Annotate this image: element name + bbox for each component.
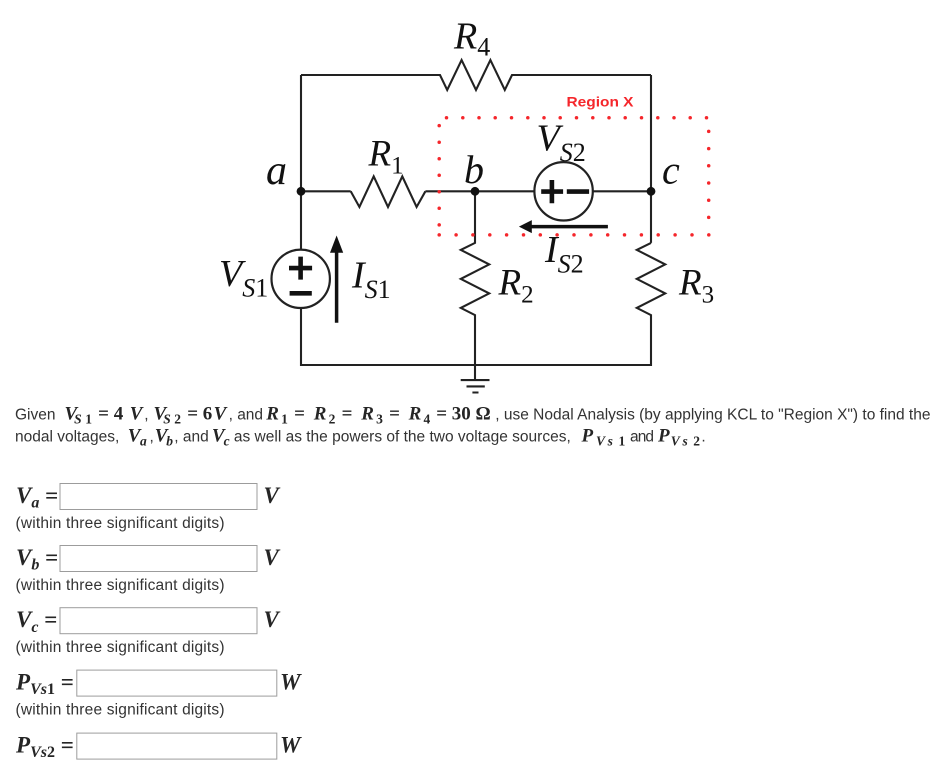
svg-text:c: c xyxy=(662,148,680,193)
node c (junction dot) xyxy=(647,187,656,196)
VS2 plus sign xyxy=(541,180,563,203)
svg-text:(within three significant digi: (within three significant digits) xyxy=(16,515,225,532)
svg-text:R1: R1 xyxy=(368,133,404,179)
svg-text:IS2: IS2 xyxy=(544,229,584,279)
wire: middle wire from R1 through node b to Vs2 xyxy=(425,190,534,192)
node b (junction dot) xyxy=(471,187,480,196)
answer input box Vb xyxy=(60,546,257,572)
svg-text:R4: R4 xyxy=(453,16,490,62)
resistor R2 (vertical zigzag from node b to bottom wire) xyxy=(461,191,489,366)
answer input box PVs2 xyxy=(77,733,277,759)
svg-text:Vb =: Vb = xyxy=(16,545,58,574)
svg-text:Va =: Va = xyxy=(16,483,58,512)
ground symbol xyxy=(461,365,490,393)
VS1 minus sign xyxy=(290,291,312,296)
svg-text:V: V xyxy=(264,607,281,632)
wire: middle wire from node a to R1 xyxy=(301,190,351,192)
resistor R1 (horizontal zigzag) xyxy=(351,176,426,207)
answer input box PVs1 xyxy=(77,670,277,696)
svg-text:PVs1 =: PVs1 = xyxy=(15,670,74,699)
current arrow IS2 (pointing left) xyxy=(531,225,608,229)
svg-text:W: W xyxy=(280,670,302,695)
svg-text:b: b xyxy=(464,147,484,192)
VS1 plus sign xyxy=(289,257,312,280)
wire: left rail lower segment (Vs1 down to bottom wire) xyxy=(300,308,302,366)
wire: bottom wire xyxy=(300,364,652,366)
svg-text:VS2: VS2 xyxy=(537,118,586,168)
svg-text:W: W xyxy=(280,733,302,758)
svg-text:Region X: Region X xyxy=(567,94,635,110)
svg-text:a: a xyxy=(266,148,287,194)
svg-text:V: V xyxy=(264,545,281,570)
wire: left rail upper segment (top wire down to Vs1) xyxy=(300,75,302,250)
svg-text:VS1: VS1 xyxy=(219,253,268,303)
svg-text:IS1: IS1 xyxy=(351,255,391,305)
voltage source VS1 (circle) xyxy=(272,250,330,308)
wire: middle wire from Vs2 to node c xyxy=(593,190,651,192)
voltage source VS2 (circle) xyxy=(534,162,592,220)
answer input box Va xyxy=(60,484,257,510)
Region X dotted boundary xyxy=(437,116,710,237)
wire: right rail (top wire down to node c and resistor R3) xyxy=(650,75,652,243)
node a (junction dot) xyxy=(297,187,306,196)
svg-text:(within three significant digi: (within three significant digits) xyxy=(16,701,225,718)
svg-text:Given VS1 = 4 V, VS2 = 6 V, an: Given VS1 = 4 V, VS2 = 6 V, and R1 = R2 … xyxy=(15,404,930,427)
svg-text:R2: R2 xyxy=(498,263,534,309)
answer input box Vc xyxy=(60,608,257,634)
resistor R3 (vertical zigzag) xyxy=(637,243,665,366)
svg-text:(within three significant digi: (within three significant digits) xyxy=(16,577,225,594)
wire: top wire with resistor R4 between top-left and top-right corners xyxy=(301,60,651,90)
svg-text:V: V xyxy=(264,483,281,508)
svg-text:R3: R3 xyxy=(678,263,714,309)
svg-text:PVs2 =: PVs2 = xyxy=(15,733,74,762)
svg-text:(within three significant digi: (within three significant digits) xyxy=(16,639,225,656)
svg-text:nodal voltages, Va, Vb, and Vc: nodal voltages, Va, Vb, and Vc as well a… xyxy=(15,426,706,449)
VS2 minus sign xyxy=(567,189,589,194)
svg-text:Vc =: Vc = xyxy=(16,607,57,636)
current arrow IS1 (upward) xyxy=(335,252,339,323)
